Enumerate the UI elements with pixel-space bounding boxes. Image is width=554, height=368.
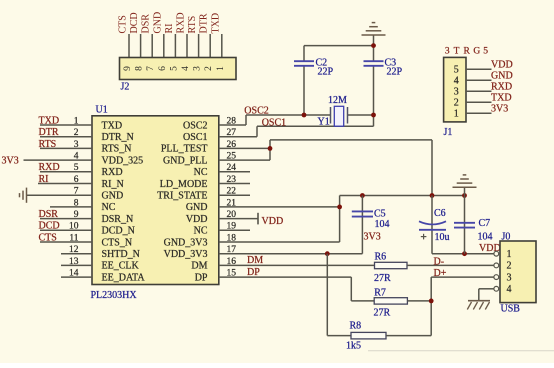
svg-text:27R: 27R (374, 273, 391, 284)
svg-text:1: 1 (216, 66, 226, 71)
svg-text:GND: GND (152, 12, 163, 34)
svg-text:Y1: Y1 (318, 116, 330, 127)
svg-text:NC: NC (102, 202, 116, 213)
svg-text:EE_DATA: EE_DATA (102, 272, 146, 283)
svg-text:2: 2 (204, 66, 214, 71)
svg-text:R8: R8 (350, 321, 362, 332)
svg-text:VDD: VDD (262, 216, 284, 227)
svg-text:EE_CLK: EE_CLK (102, 261, 140, 272)
svg-text:DP: DP (195, 272, 208, 283)
svg-text:10u: 10u (435, 232, 450, 243)
svg-text:D-: D- (434, 256, 445, 267)
svg-text:104: 104 (478, 232, 493, 243)
svg-text:5: 5 (454, 65, 459, 76)
svg-text:C6: C6 (434, 208, 446, 219)
svg-text:USB: USB (501, 304, 521, 315)
svg-text:DCD: DCD (129, 12, 140, 33)
svg-text:7: 7 (146, 66, 156, 71)
svg-text:RI: RI (164, 24, 175, 34)
svg-text:VDD: VDD (491, 60, 513, 71)
svg-text:27R: 27R (374, 308, 391, 319)
svg-text:DM: DM (247, 255, 263, 266)
svg-text:TXD: TXD (210, 13, 221, 34)
svg-text:DP: DP (247, 267, 260, 278)
svg-text:3V3: 3V3 (364, 232, 381, 243)
svg-text:OSC2: OSC2 (244, 106, 268, 117)
svg-text:RXD: RXD (39, 162, 60, 173)
svg-text:TXD: TXD (39, 115, 60, 126)
svg-text:DTR: DTR (199, 13, 210, 33)
svg-text:3: 3 (454, 87, 459, 98)
svg-text:TXD: TXD (102, 120, 123, 131)
svg-text:VDD_3V3: VDD_3V3 (164, 249, 208, 260)
svg-text:4: 4 (181, 66, 191, 71)
svg-text:3: 3 (445, 47, 450, 57)
svg-text:4: 4 (507, 284, 512, 295)
svg-text:1k5: 1k5 (346, 341, 361, 352)
svg-text:GND_3V3: GND_3V3 (164, 237, 208, 248)
svg-text:OSC1: OSC1 (183, 132, 207, 143)
svg-text:RI_N: RI_N (102, 179, 124, 190)
svg-text:DCD_N: DCD_N (102, 226, 135, 237)
svg-text:D+: D+ (434, 268, 447, 279)
svg-text:5: 5 (169, 66, 179, 71)
svg-text:8: 8 (135, 66, 145, 71)
svg-text:104: 104 (375, 219, 390, 230)
svg-text:22P: 22P (387, 67, 403, 78)
svg-text:TRI_STATE: TRI_STATE (157, 191, 207, 202)
svg-text:SHTD_N: SHTD_N (102, 249, 140, 260)
svg-text:J2: J2 (121, 82, 130, 93)
svg-text:LD_MODE: LD_MODE (160, 179, 208, 190)
svg-text:RTS: RTS (39, 139, 57, 150)
svg-text:CTS: CTS (118, 15, 129, 33)
svg-text:OSC2: OSC2 (183, 120, 207, 131)
svg-text:GND_PLL: GND_PLL (163, 155, 207, 166)
svg-text:VDD_325: VDD_325 (102, 155, 144, 166)
svg-text:DSR_N: DSR_N (102, 214, 134, 225)
svg-text:T: T (454, 47, 460, 57)
svg-text:CTS: CTS (39, 232, 57, 243)
svg-text:PL2303HX: PL2303HX (91, 290, 138, 301)
svg-text:RTS: RTS (187, 16, 198, 34)
svg-text:22P: 22P (318, 67, 334, 78)
svg-text:12M: 12M (328, 95, 347, 106)
svg-text:OSC1: OSC1 (262, 118, 286, 129)
svg-text:RXD: RXD (176, 12, 187, 33)
svg-text:2: 2 (454, 98, 459, 109)
svg-text:3V3: 3V3 (491, 104, 508, 115)
svg-text:G: G (473, 47, 480, 57)
svg-text:3: 3 (507, 272, 512, 283)
svg-text:RTS_N: RTS_N (102, 144, 132, 155)
svg-text:R7: R7 (374, 288, 386, 299)
svg-text:DTR: DTR (39, 127, 59, 138)
svg-text:GND: GND (491, 71, 513, 82)
svg-text:J1: J1 (444, 127, 453, 138)
svg-text:R: R (464, 47, 471, 57)
svg-text:C7: C7 (479, 218, 491, 229)
svg-text:DTR_N: DTR_N (102, 132, 134, 143)
svg-text:CTS_N: CTS_N (102, 237, 133, 248)
svg-text:PLL_TEST: PLL_TEST (161, 144, 208, 155)
svg-text:C5: C5 (374, 208, 386, 219)
svg-text:TXD: TXD (491, 93, 512, 104)
svg-text:DSR: DSR (141, 14, 152, 34)
svg-text:RXD: RXD (491, 82, 512, 93)
svg-text:DM: DM (191, 261, 207, 272)
svg-text:RI: RI (39, 174, 49, 185)
svg-text:DSR: DSR (39, 209, 59, 220)
svg-text:DCD: DCD (39, 221, 60, 232)
svg-text:GND: GND (186, 202, 208, 213)
svg-text:9: 9 (123, 66, 133, 71)
svg-text:3V3: 3V3 (2, 155, 19, 166)
svg-text:NC: NC (194, 226, 208, 237)
svg-text:2: 2 (507, 261, 512, 272)
svg-text:GND: GND (102, 191, 124, 202)
svg-text:U1: U1 (96, 105, 108, 116)
svg-text:RXD: RXD (102, 167, 123, 178)
svg-text:1: 1 (507, 249, 512, 260)
svg-text:1: 1 (454, 109, 459, 120)
svg-text:6: 6 (158, 66, 168, 71)
svg-text:VDD: VDD (186, 214, 208, 225)
svg-text:NC: NC (194, 167, 208, 178)
svg-text:J0: J0 (502, 232, 511, 243)
svg-text:4: 4 (454, 76, 459, 87)
svg-text:R6: R6 (375, 251, 387, 262)
svg-text:5: 5 (483, 47, 488, 57)
svg-text:3: 3 (193, 66, 203, 71)
